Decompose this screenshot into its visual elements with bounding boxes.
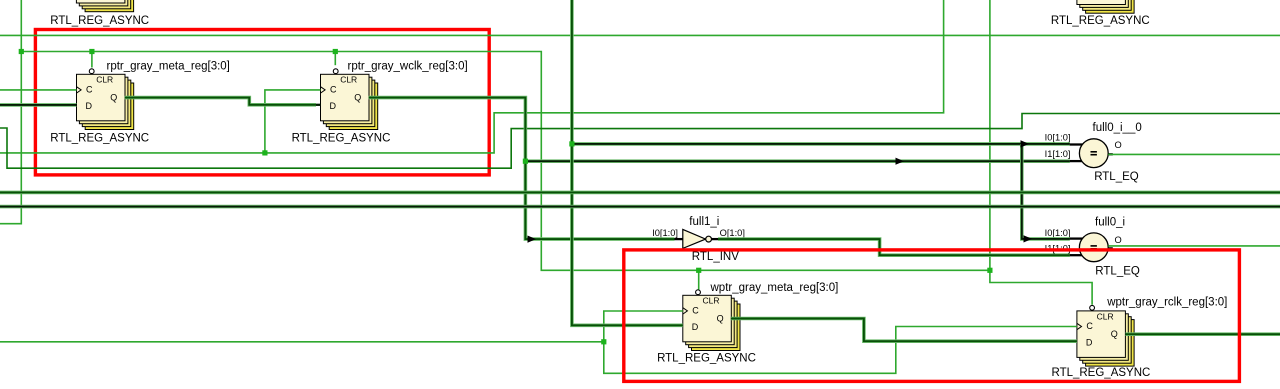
label wptr_gray_meta_reg[3:0] (710, 282, 839, 294)
bus FF4 Q to right edge (1125, 332, 1280, 336)
op-eq U full0_i__0 (RTL_EQ upper) (1070, 139, 1113, 168)
bus wptr_gray from top edge down to FF3 D (572, 0, 683, 325)
svg-text:wptr_gray_meta_reg[3:0]: wptr_gray_meta_reg[3:0] (710, 282, 839, 294)
wire wclk2 net into FF3 C (0, 311, 683, 342)
wire wclk net (C of FF2) long route (0, 0, 944, 153)
svg-text:Q: Q (354, 93, 361, 103)
wire lower EQ output O to right edge (1108, 245, 1280, 247)
label RTL_REG_ASYNC (292, 132, 391, 144)
bus FF3 Q to FF4 D (731, 319, 1077, 342)
svg-text:CLR: CLR (96, 75, 113, 85)
svg-text:CLR: CLR (702, 296, 719, 306)
wire net rclk horizontal (y=35) (0, 34, 1280, 36)
label rptr_gray_wclk_reg[3:0] (348, 61, 468, 73)
label RTL_EQ (upper) (1094, 171, 1139, 183)
label full0_i (1095, 217, 1125, 229)
bus branch down to lower EQ I0 (1022, 144, 1070, 239)
junction CLR net corner (987, 268, 992, 273)
label RTL_REG_ASYNC (1051, 367, 1150, 379)
flip-flop wptr_gray_meta_reg[3:0] (RTL_REG_ASYNC) (683, 290, 740, 351)
label rptr_gray_meta_reg[3:0] (107, 61, 230, 73)
wire CLR drop to wptr_gray_meta_reg bubble (698, 270, 700, 289)
junction CLR/FF2 drop (333, 49, 338, 54)
junction at x21 CLR line (19, 49, 24, 54)
flip-flop rptr_gray_meta_reg[3:0] (RTL_REG_ASYNC) (77, 69, 134, 130)
junction wclk net branch (262, 150, 267, 155)
wire CLR drop to rptr_gray_wclk_reg bubble (334, 52, 336, 66)
bus horizontal full-width y=207 (0, 205, 1280, 209)
pin label I0[1:0] (lower EQ) (1045, 228, 1071, 238)
wire wclk branch up into FF2 C (265, 90, 321, 153)
flip-flop rptr_gray_wclk_reg[3:0] (RTL_REG_ASYNC) (321, 69, 378, 130)
wire CLR drop from top edge to wptr_gray_rclk_reg bubble (990, 0, 1092, 305)
flip-flop register (partial, top-left) (76, 0, 133, 12)
svg-text:D: D (330, 101, 337, 111)
bus inverter output to lower EQ I1 (718, 239, 1070, 255)
flip-flop register (partial, top-right) (1077, 0, 1134, 13)
junction CLR/FF1 drop (89, 49, 94, 54)
bus rptr_gray into FF1 D from left edge (0, 103, 77, 107)
svg-text:RTL_REG_ASYNC: RTL_REG_ASYNC (1051, 367, 1150, 379)
svg-text:C: C (1086, 321, 1093, 331)
op-eq U full0_i (RTL_EQ lower) (1070, 233, 1113, 262)
label wptr_gray_rclk_reg[3:0] (1106, 297, 1227, 309)
pin label I0[1:0] (inverter input) (652, 228, 678, 238)
junction FF2 Q / EQ I1 branch (523, 159, 528, 164)
arrowhead on upper EQ I1 bus (896, 158, 905, 165)
svg-text:RTL_EQ: RTL_EQ (1095, 266, 1140, 278)
wire wclk2 branch into FF4 C (604, 327, 1077, 374)
svg-text:C: C (692, 306, 699, 316)
svg-text:C: C (86, 85, 93, 95)
label RTL_INV (692, 251, 739, 263)
svg-text:full1_i: full1_i (689, 216, 719, 228)
svg-text:RTL_REG_ASYNC: RTL_REG_ASYNC (50, 132, 149, 144)
bus horizontal full-width y=192 (0, 191, 1280, 195)
pin label O (upper EQ) (1115, 140, 1122, 150)
svg-text:full0_i: full0_i (1095, 217, 1125, 229)
arrowhead on upper EQ I0 bus (1021, 140, 1030, 147)
svg-text:RTL_INV: RTL_INV (692, 251, 739, 263)
svg-text:O[1:0]: O[1:0] (720, 228, 745, 238)
svg-text:D: D (692, 322, 699, 332)
pin label O[1:0] (inverter output) (720, 228, 745, 238)
label full0_i__0 (1093, 122, 1142, 134)
svg-text:D: D (86, 101, 93, 111)
svg-text:I1[1:0]: I1[1:0] (1045, 149, 1071, 159)
svg-text:RTL_REG_ASYNC: RTL_REG_ASYNC (292, 132, 391, 144)
svg-text:I0[1:0]: I0[1:0] (1045, 228, 1071, 238)
svg-text:full0_i__0: full0_i__0 (1093, 122, 1142, 134)
svg-text:RTL_REG_ASYNC: RTL_REG_ASYNC (50, 15, 149, 27)
red highlight box 2 (wptr sync registers) (624, 250, 1240, 382)
label RTL_REG_ASYNC (50, 132, 149, 144)
wire net (dark thin) left-edge jog route y128-168-128-113 (0, 114, 1280, 169)
bus branch to upper EQ I0 (572, 142, 1070, 146)
svg-text:CLR: CLR (1097, 311, 1114, 321)
bus FF2 Q down to inverter input (369, 98, 675, 240)
wire net rst_n CLR distribution (21, 52, 990, 271)
label full1_i (689, 216, 719, 228)
arrowhead on inverter input bus (528, 236, 537, 243)
pin label I1[1:0] (upper EQ) (1045, 149, 1071, 159)
svg-text:CLR: CLR (340, 75, 357, 85)
svg-text:RTL_EQ: RTL_EQ (1094, 171, 1139, 183)
bus pin stub FF2 D (316, 104, 321, 106)
junction wptr bus / EQ I0 branch (569, 141, 574, 146)
pin label I0[1:0] (upper EQ) (1045, 133, 1071, 143)
svg-text:RTL_REG_ASYNC: RTL_REG_ASYNC (1051, 15, 1150, 27)
svg-text:wptr_gray_rclk_reg[3:0]: wptr_gray_rclk_reg[3:0] (1106, 297, 1227, 309)
wire vertical net at x=21 with elbow to left edge (0, 0, 21, 224)
label RTL_EQ (lower) (1095, 266, 1140, 278)
bus branch to upper EQ I1 (525, 159, 1069, 163)
svg-text:rptr_gray_wclk_reg[3:0]: rptr_gray_wclk_reg[3:0] (348, 61, 468, 73)
svg-text:I0[1:0]: I0[1:0] (1045, 133, 1071, 143)
wire CLR drop to rptr_gray_meta_reg bubble (91, 52, 93, 68)
svg-text:C: C (330, 85, 337, 95)
inverter U full1_i (RTL_INV) (675, 229, 719, 248)
arrowhead on lower EQ I0 bus (1024, 235, 1033, 242)
junction wclk2 net branch (601, 339, 606, 344)
svg-text:O: O (1115, 140, 1122, 150)
svg-text:O: O (1115, 235, 1122, 245)
bus FF1 Q to FF2 D (125, 98, 316, 105)
svg-text:rptr_gray_meta_reg[3:0]: rptr_gray_meta_reg[3:0] (107, 61, 230, 73)
junction CLR / FF3 drop (696, 268, 701, 273)
wire upper EQ output O to right edge (1108, 153, 1280, 155)
svg-text:Q: Q (110, 93, 117, 103)
label RTL_REG_ASYNC (top-left partial reg) (50, 15, 149, 27)
svg-text:Q: Q (717, 314, 724, 324)
svg-text:RTL_REG_ASYNC: RTL_REG_ASYNC (657, 353, 756, 365)
wire rptr clock into FF1 C from left edge (0, 89, 77, 91)
pin label I1[1:0] (lower EQ) (1045, 244, 1071, 254)
label RTL_REG_ASYNC (top-right partial reg) (1051, 15, 1150, 27)
flip-flop wptr_gray_rclk_reg[3:0] (RTL_REG_ASYNC) (1077, 305, 1134, 366)
pin label O (lower EQ) (1115, 235, 1122, 245)
red highlight box 1 (rptr sync registers) (35, 30, 489, 175)
svg-text:Q: Q (1111, 329, 1118, 339)
svg-text:I0[1:0]: I0[1:0] (652, 228, 678, 238)
svg-text:D: D (1086, 338, 1093, 348)
label RTL_REG_ASYNC (657, 353, 756, 365)
